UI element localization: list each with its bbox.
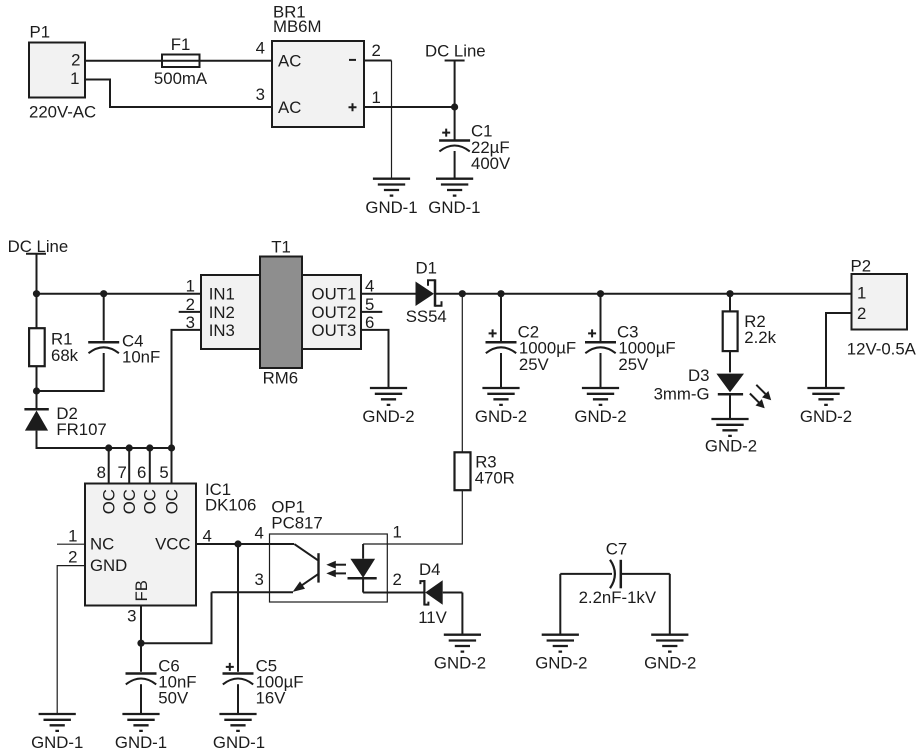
svg-text:3: 3 <box>254 570 263 589</box>
svg-text:GND: GND <box>90 556 127 575</box>
svg-text:4: 4 <box>256 39 265 58</box>
svg-text:RM6: RM6 <box>263 368 298 387</box>
svg-text:3: 3 <box>256 85 265 104</box>
svg-text:NC: NC <box>90 535 114 554</box>
svg-text:50V: 50V <box>158 689 189 708</box>
svg-text:2: 2 <box>68 548 77 567</box>
svg-text:GND-1: GND-1 <box>428 198 480 217</box>
svg-text:GND-2: GND-2 <box>535 654 587 673</box>
svg-text:MB6M: MB6M <box>273 17 321 36</box>
svg-text:FR107: FR107 <box>56 420 106 439</box>
svg-text:GND-1: GND-1 <box>115 733 167 752</box>
svg-text:VCC: VCC <box>155 535 190 554</box>
svg-text:12V-0.5A: 12V-0.5A <box>847 340 917 359</box>
svg-text:1: 1 <box>70 69 79 88</box>
svg-text:OC: OC <box>141 489 160 514</box>
svg-text:4: 4 <box>254 524 263 543</box>
svg-text:GND-2: GND-2 <box>434 654 486 673</box>
svg-text:T1: T1 <box>271 238 291 257</box>
svg-text:D3: D3 <box>688 366 709 385</box>
svg-text:GND-1: GND-1 <box>365 198 417 217</box>
svg-text:OC: OC <box>162 489 181 514</box>
svg-text:IN3: IN3 <box>209 321 235 340</box>
svg-text:DC Line: DC Line <box>425 42 486 61</box>
svg-text:GND-1: GND-1 <box>31 733 83 752</box>
svg-text:GND-2: GND-2 <box>705 437 757 456</box>
svg-text:4: 4 <box>203 527 212 546</box>
svg-text:4: 4 <box>365 277 374 296</box>
svg-text:68k: 68k <box>51 346 79 365</box>
svg-text:GND-2: GND-2 <box>644 654 696 673</box>
svg-text:AC: AC <box>278 98 301 117</box>
svg-text:1: 1 <box>393 523 402 542</box>
svg-text:D4: D4 <box>419 560 440 579</box>
svg-text:GND-2: GND-2 <box>574 407 626 426</box>
svg-text:10nF: 10nF <box>122 348 160 367</box>
svg-text:F1: F1 <box>171 35 191 54</box>
svg-text:1: 1 <box>372 88 381 107</box>
svg-text:C7: C7 <box>606 540 627 559</box>
svg-text:OC: OC <box>100 489 119 514</box>
svg-text:11V: 11V <box>418 608 447 627</box>
svg-text:2.2nF-1kV: 2.2nF-1kV <box>579 588 657 607</box>
svg-text:GND-2: GND-2 <box>800 407 852 426</box>
svg-text:P2: P2 <box>851 257 872 276</box>
svg-text:IN1: IN1 <box>209 285 235 304</box>
svg-text:2: 2 <box>71 51 80 70</box>
svg-text:3mm-G: 3mm-G <box>654 385 710 404</box>
svg-text:2: 2 <box>857 304 866 323</box>
svg-text:P1: P1 <box>30 23 51 42</box>
svg-text:DK106: DK106 <box>205 496 256 515</box>
svg-text:D1: D1 <box>416 259 437 278</box>
svg-text:1: 1 <box>857 284 866 303</box>
svg-text:GND-2: GND-2 <box>362 407 414 426</box>
svg-text:1: 1 <box>186 277 195 296</box>
svg-text:GND-2: GND-2 <box>475 407 527 426</box>
svg-text:8: 8 <box>97 463 106 482</box>
svg-text:OC: OC <box>120 489 139 514</box>
svg-text:5: 5 <box>159 463 168 482</box>
svg-text:470R: 470R <box>475 469 515 488</box>
svg-text:25V: 25V <box>519 355 550 374</box>
svg-text:OUT3: OUT3 <box>312 321 357 340</box>
svg-text:OUT1: OUT1 <box>312 285 357 304</box>
svg-text:OUT2: OUT2 <box>312 303 357 322</box>
svg-text:IN2: IN2 <box>209 303 235 322</box>
svg-text:1: 1 <box>68 527 77 546</box>
svg-text:220V-AC: 220V-AC <box>29 103 96 122</box>
svg-text:3: 3 <box>127 607 136 626</box>
svg-text:2: 2 <box>372 41 381 60</box>
svg-text:6: 6 <box>137 463 146 482</box>
svg-text:PC817: PC817 <box>271 514 322 533</box>
svg-text:400V: 400V <box>471 154 511 173</box>
svg-text:2: 2 <box>393 570 402 589</box>
svg-text:SS54: SS54 <box>406 307 447 326</box>
svg-text:500mA: 500mA <box>154 69 208 88</box>
svg-text:AC: AC <box>278 52 301 71</box>
svg-text:25V: 25V <box>618 355 649 374</box>
svg-text:16V: 16V <box>256 689 287 708</box>
svg-text:2.2k: 2.2k <box>744 328 776 347</box>
svg-text:FB: FB <box>132 580 151 601</box>
svg-text:GND-1: GND-1 <box>213 733 265 752</box>
svg-text:7: 7 <box>118 463 127 482</box>
